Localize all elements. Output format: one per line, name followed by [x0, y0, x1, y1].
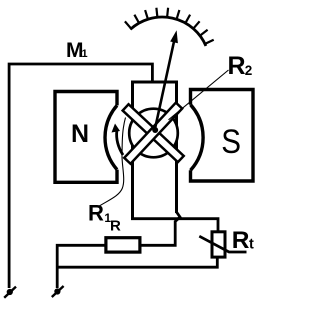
- coil sash 2 (SW-NE): [124, 103, 182, 164]
- magnet S body: [191, 90, 254, 182]
- magnet S pole face arc: [191, 105, 204, 171]
- svg-text:R: R: [232, 227, 250, 254]
- pivot dot: [152, 127, 158, 133]
- needle arrowhead: [170, 30, 178, 43]
- magnet N pole face arc: [105, 105, 117, 169]
- svg-text:1: 1: [82, 48, 88, 60]
- coil sash 1 (NW-SE): [123, 104, 184, 162]
- leader line R2: [169, 70, 229, 120]
- svg-text:t: t: [249, 237, 254, 253]
- wire bottom rail (terminal 2 branch to rheostat bottom): [57, 258, 217, 267]
- rheostat Rt adjustment slash: [199, 236, 246, 252]
- wire resistor R left lead to terminal 2: [57, 245, 105, 288]
- wire hop (right frame edge over bottom wire) down to resistor R: [142, 212, 181, 245]
- scale tick marks: [125, 8, 214, 45]
- coil support frame: [133, 82, 177, 220]
- rheostat Rt body: [212, 232, 225, 257]
- wire frame bottom to rheostat top: [131, 219, 218, 231]
- leader line R1: [99, 118, 126, 207]
- svg-text:R: R: [228, 52, 246, 80]
- needle (pointer) shaft: [155, 42, 175, 132]
- svg-text:N: N: [71, 120, 89, 148]
- resistor R body: [106, 238, 140, 252]
- svg-text:S: S: [221, 122, 241, 160]
- terminal (right input clamp): [52, 286, 64, 297]
- svg-text:R: R: [110, 217, 121, 234]
- coil core circle: [129, 109, 178, 158]
- rotation direction arrow: [117, 131, 123, 155]
- wire M1 loop (left vertical + top horizontal + drop to frame): [9, 64, 152, 288]
- scale arc: [130, 17, 206, 46]
- svg-text:2: 2: [245, 63, 253, 78]
- terminal (left input clamp): [4, 287, 16, 298]
- magnet N body: [55, 92, 117, 183]
